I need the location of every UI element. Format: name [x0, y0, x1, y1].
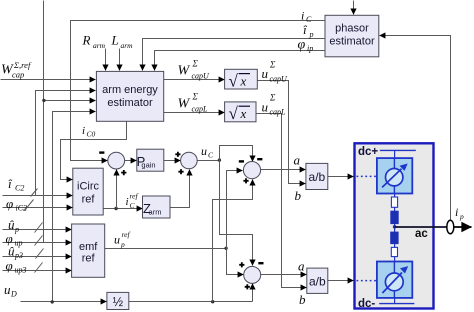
svg-text:i: i — [301, 9, 304, 23]
svg-text:a/b: a/b — [309, 275, 326, 289]
lower cell source circle — [385, 273, 403, 291]
svg-text:p3: p3 — [14, 251, 23, 260]
wire u_p ref down to sum4 left — [227, 249, 244, 275]
block emf ref — [72, 224, 105, 277]
wire upper a/b output to converter — [328, 176, 354, 178]
svg-text:phasor: phasor — [335, 23, 369, 35]
sign sum3 minus top — [257, 158, 262, 160]
svg-text:û: û — [8, 244, 15, 259]
wire u_D/2 output — [129, 301, 253, 303]
sign sum4 plus left — [239, 262, 244, 267]
svg-text:estimator: estimator — [329, 36, 375, 48]
upper cell box — [377, 158, 412, 193]
junction dot u_C — [218, 158, 221, 161]
wire L_arm stub — [119, 49, 121, 71]
svg-text:up3: up3 — [15, 266, 27, 275]
wire Z_arm to sum2 plus — [171, 170, 190, 208]
sign sum4 plus bottom — [245, 284, 250, 289]
junction dot u_p ref — [224, 247, 227, 250]
sign sum2 plus bottom — [178, 169, 183, 174]
svg-text:p: p — [309, 30, 314, 39]
slash phi_up3 — [35, 263, 43, 273]
upper cell internal stubs — [393, 158, 395, 169]
wire W capU to sqrt1 — [164, 79, 225, 81]
block iCirc ref — [73, 168, 103, 215]
upper arm small rect open — [391, 197, 397, 207]
svg-text:û: û — [8, 217, 15, 232]
junction dot u_D — [51, 300, 54, 303]
wire phi_up3 input — [3, 270, 72, 272]
wire vertical net from top to phi_up line — [43, 1, 45, 243]
dc- rail — [379, 303, 414, 305]
block a/b upper — [306, 163, 328, 189]
block a/b lower — [307, 268, 328, 293]
lower cell arrow — [382, 273, 402, 294]
svg-text:dc-: dc- — [358, 298, 375, 310]
wire i_p hat from phasor estimator to arm estimator top — [143, 39, 326, 71]
wire arm estimator input 2 (from i_C2 line) — [36, 91, 96, 196]
dotted modulation input upper — [357, 175, 377, 177]
sign sum3 plus bottom — [243, 178, 248, 183]
wire i_C from phasor estimator to sum1 — [71, 21, 326, 161]
svg-text:emf: emf — [79, 241, 98, 253]
wire sum3 to upper a/b a-input — [261, 169, 306, 171]
wire sum4 to lower a/b a-input — [261, 274, 307, 276]
svg-text:D: D — [10, 290, 17, 299]
svg-text:W: W — [178, 64, 191, 79]
svg-text:C2: C2 — [15, 184, 24, 193]
wire u_D/2 up to sum4 bottom — [252, 284, 254, 302]
block arm energy estimator — [96, 71, 163, 121]
wire i_C ref to Z_arm — [104, 208, 143, 210]
wire i_C ref up to sum1 plus — [116, 170, 118, 209]
wire lower a/b output to converter — [328, 280, 354, 282]
wire phi_iC2 input — [3, 207, 73, 209]
svg-text:cap: cap — [12, 70, 24, 80]
sign sum2 plus left — [175, 152, 180, 157]
sign sum1 minus — [99, 151, 104, 153]
svg-text:a/b: a/b — [309, 170, 326, 184]
dc+ rail — [380, 149, 416, 151]
svg-text:up: up — [15, 239, 23, 248]
svg-text:p: p — [459, 212, 464, 221]
svg-text:capU: capU — [270, 75, 289, 84]
converter box — [355, 143, 434, 308]
block Z_arm — [143, 196, 171, 218]
svg-text:φ: φ — [298, 38, 306, 53]
svg-text:Σ: Σ — [269, 60, 276, 70]
slash u_p — [35, 223, 43, 233]
ac output line — [395, 226, 447, 228]
svg-text:arm energy: arm energy — [102, 84, 158, 96]
ac arrow out — [454, 226, 472, 228]
svg-text:Σ,ref: Σ,ref — [13, 60, 32, 70]
wire u_C from sum2 — [198, 160, 220, 162]
sign sum4 minus top — [258, 262, 263, 264]
svg-text:C0: C0 — [87, 130, 96, 139]
svg-text:b: b — [295, 188, 302, 203]
block sqrt upper — [225, 69, 258, 89]
svg-text:arm: arm — [93, 41, 106, 50]
wire sum1 to P_gain — [125, 160, 137, 162]
block P_gain — [137, 149, 164, 171]
svg-text:R: R — [82, 33, 91, 48]
svg-text:arm: arm — [149, 207, 162, 216]
svg-text:u: u — [4, 282, 11, 297]
svg-text:capL: capL — [270, 108, 287, 117]
junction dot i_C ref — [114, 207, 117, 210]
lower arm small rect open — [391, 247, 397, 256]
wire P_gain to sum2 — [164, 160, 181, 162]
svg-text:√: √ — [229, 72, 239, 91]
wire R_arm stub — [105, 49, 107, 71]
wire u_C upper loop to sum3 top — [220, 146, 253, 162]
slash phi_iC2 — [25, 200, 34, 211]
sign sum1 plus — [121, 170, 126, 175]
svg-text:W: W — [178, 97, 191, 112]
svg-text:u: u — [262, 100, 269, 115]
svg-text:estimator: estimator — [107, 97, 153, 109]
svg-text:φ: φ — [6, 196, 13, 211]
svg-text:a: a — [298, 259, 305, 274]
wire u_D to arm estimator input 4 — [53, 112, 96, 302]
junction dot input 3 — [42, 99, 45, 102]
wire u_capL feedback to lower a/b b-input — [257, 114, 307, 288]
wire phasor estimator top input — [353, 1, 355, 15]
wire i_p feedback to phasor estimator — [380, 36, 451, 221]
sum junction 3 — [243, 162, 260, 179]
upper arm small rect filled — [391, 211, 398, 223]
block phasor estimator — [325, 15, 379, 57]
svg-text:x: x — [240, 106, 247, 121]
svg-text:u: u — [114, 233, 120, 247]
svg-text:ref: ref — [122, 230, 131, 239]
slash i_C2 — [31, 189, 38, 197]
dotted modulation input lower — [357, 280, 377, 282]
wire phi_ip from phasor estimator to arm estimator top — [155, 51, 326, 71]
upper cell arrow — [382, 169, 401, 188]
svg-text:iC2: iC2 — [16, 204, 28, 213]
svg-text:C: C — [306, 15, 312, 24]
block sqrt lower — [225, 102, 256, 122]
svg-text:ref: ref — [82, 194, 96, 206]
ac node dot — [393, 225, 397, 229]
svg-text:iCirc: iCirc — [77, 181, 99, 193]
svg-text:b: b — [299, 292, 306, 307]
svg-text:p: p — [120, 240, 125, 249]
wire i_C2 hat input — [3, 195, 73, 197]
svg-text:ref: ref — [130, 192, 139, 201]
lower cell internal stubs — [393, 262, 395, 274]
wire u_p3 hat input — [3, 256, 72, 258]
svg-text:u: u — [262, 66, 269, 81]
junction dot u_D/2 — [211, 300, 214, 303]
svg-text:L: L — [111, 33, 119, 48]
svg-text:ref: ref — [82, 253, 96, 265]
svg-text:x: x — [240, 74, 247, 89]
wire phi_up input — [3, 242, 72, 244]
slash u_p3 — [36, 249, 44, 259]
svg-text:Σ: Σ — [269, 93, 276, 103]
wire W cap ref input — [1, 79, 96, 81]
svg-text:ac: ac — [415, 228, 428, 240]
svg-text:p: p — [14, 225, 19, 234]
lower cell box — [377, 262, 412, 298]
svg-text:i: i — [126, 196, 129, 208]
wire arm estimator input 3 branch — [44, 100, 96, 102]
sign sum3 minus left — [239, 160, 244, 162]
block one half — [107, 292, 129, 309]
svg-text:i: i — [455, 205, 458, 219]
svg-text:ip: ip — [307, 44, 313, 53]
sum junction 1 — [108, 152, 125, 169]
svg-text:gain: gain — [141, 161, 155, 170]
svg-text:capU: capU — [192, 72, 211, 81]
svg-text:½: ½ — [113, 295, 124, 309]
svg-text:arm: arm — [121, 41, 134, 50]
arm chain vertical segments — [394, 150, 396, 158]
wire W capL to sqrt2 — [164, 112, 225, 114]
wire u_p ref up to sum3 left — [227, 171, 243, 249]
wire u_D input — [21, 301, 107, 303]
svg-text:Σ: Σ — [192, 59, 199, 69]
lower arm small rect filled — [391, 232, 398, 244]
upper cell source circle — [386, 169, 403, 186]
svg-text:φ: φ — [6, 258, 13, 273]
svg-text:capL: capL — [192, 105, 209, 114]
current sensor ellipse — [447, 220, 454, 234]
svg-text:i: i — [82, 125, 85, 137]
wire u_p hat input — [3, 229, 72, 231]
wire u_capU feedback to upper a/b b-input — [258, 81, 306, 184]
slash phi_up — [35, 236, 43, 246]
wire u_p ref from emf ref — [105, 248, 227, 250]
svg-text:u: u — [201, 144, 207, 158]
sum junction 2 — [181, 152, 198, 169]
wire u_D/2 up to sum3 bottom — [213, 180, 253, 302]
sum junction 4 — [244, 266, 261, 283]
svg-text:a: a — [294, 153, 301, 168]
svg-text:Σ: Σ — [192, 92, 199, 102]
wire i_C0 to iCirc ref — [61, 122, 127, 180]
svg-text:dc+: dc+ — [358, 146, 378, 158]
wire u_C lower loop to sum4 top — [220, 161, 253, 266]
svg-text:√: √ — [229, 104, 239, 123]
